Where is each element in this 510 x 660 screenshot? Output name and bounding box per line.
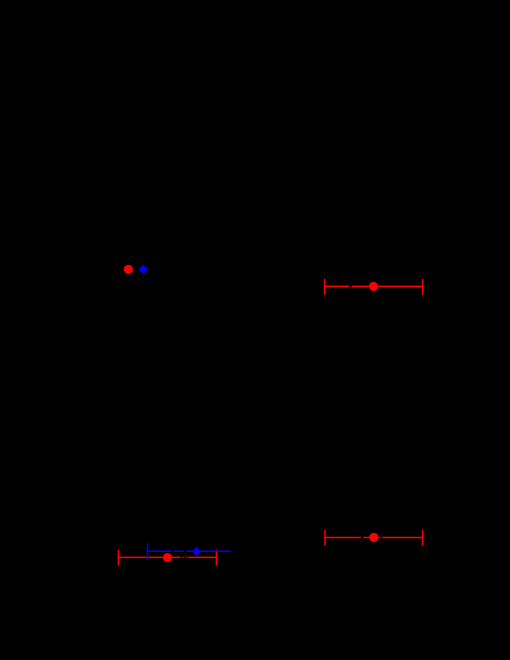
top-right panel: red error bar horizontal line (with small gap) <box>325 285 423 287</box>
bottom-left panel: red error bar horizontal line (with dash gaps) <box>118 556 216 558</box>
bottom-right panel: red error bar horizontal line (with small gaps) <box>325 537 423 539</box>
top-left panel: blue series tiny error tail <box>143 268 149 270</box>
top-right panel: red error bar left cap <box>324 279 326 295</box>
bottom-left panel: red error bar right cap <box>215 550 217 566</box>
top-right panel: red point marker <box>369 282 378 291</box>
bottom-left panel: blue diamond marker <box>192 547 201 556</box>
top-left panel: red point marker <box>124 265 133 274</box>
bottom-left panel: blue error bar left cap <box>147 543 149 560</box>
bottom-left panel: red point marker <box>163 553 172 562</box>
bottom-left panel: blue error bar horizontal line (with dash gaps, no right cap) <box>148 550 231 552</box>
top-left panel: blue diamond marker <box>139 265 148 274</box>
bottom-left panel: red error bar left cap <box>117 550 119 566</box>
top-right panel: red error bar right cap <box>422 279 424 295</box>
bottom-right panel: red error bar left cap <box>324 530 326 546</box>
bottom-right panel: red point marker <box>369 533 378 542</box>
bottom-right panel: red error bar right cap <box>422 530 424 546</box>
